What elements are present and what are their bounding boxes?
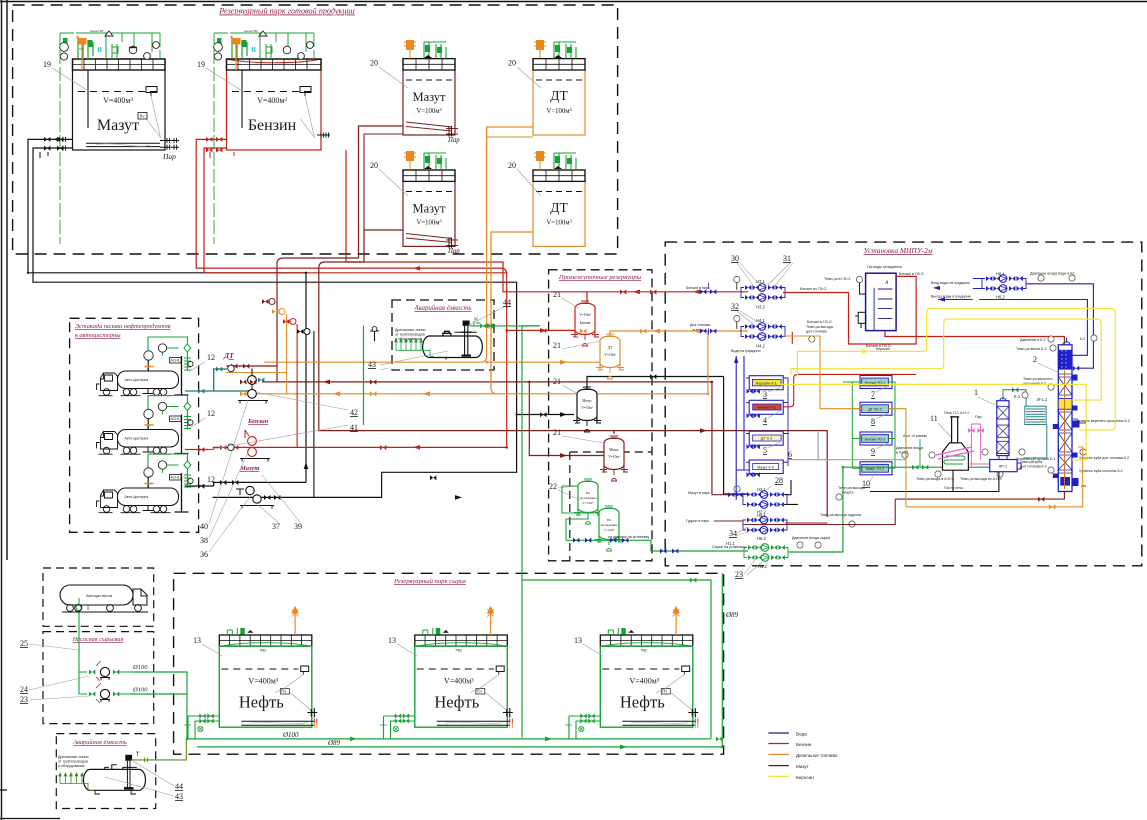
svg-text:38: 38 [200, 536, 208, 545]
svg-text:25: 25 [20, 639, 28, 648]
svg-text:42: 42 [350, 408, 358, 417]
arrows orange [333, 329, 660, 397]
standpipe emergency top [465, 326, 468, 356]
svg-text:доп топлива К-2: доп топлива К-2 [1020, 465, 1047, 469]
svg-text:39: 39 [294, 522, 302, 531]
svg-text:1: 1 [974, 388, 978, 397]
neft tank 13-3 [565, 607, 698, 739]
svg-text:ДТ: ДТ [223, 351, 234, 360]
wire: dt100 riser join [487, 127, 533, 388]
svg-text:Темп-ра в Г.В.О.: Темп-ра в Г.В.О. [824, 277, 851, 281]
gas valves green boxes tank 19 [63, 38, 68, 46]
vessel 21 dt [596, 334, 624, 379]
svg-text:7: 7 [871, 390, 875, 399]
sheet frame left [2, 0, 8, 820]
svg-text:20: 20 [370, 161, 378, 170]
svg-text:Пар: Пар [447, 248, 460, 255]
heat exchanger X-1 kerosene [749, 376, 783, 390]
svg-text:Пар: Пар [162, 152, 176, 161]
neft tank 13-2 [380, 607, 513, 739]
svg-text:Н5.2: Н5.2 [757, 536, 767, 541]
arrows darkred [323, 380, 707, 458]
box: emergency tank (top) [392, 300, 494, 370]
svg-text:20: 20 [508, 59, 516, 68]
svg-text:V=100м³: V=100м³ [416, 108, 441, 115]
takeoff valve darkred [262, 299, 268, 304]
svg-text:Мазут Х-4: Мазут Х-4 [757, 465, 774, 469]
svg-text:23: 23 [735, 570, 743, 579]
svg-text:Темп-ра верха К-2: Темп-ра верха К-2 [1016, 347, 1046, 351]
wire: mazut rack connection [185, 482, 214, 486]
junction dots [505, 329, 508, 449]
svg-text:и оборудования: и оборудования [58, 764, 85, 768]
cluster above dt100-2 [536, 151, 544, 161]
svg-text:43: 43 [368, 360, 376, 369]
svg-text:Н6.1: Н6.1 [996, 272, 1006, 277]
legend water [768, 732, 789, 734]
wire: mazut vessel top to unit [587, 377, 748, 495]
foam symbol benzin [317, 134, 330, 136]
wire: mazut100 riser pair join [359, 126, 404, 252]
svg-text:6: 6 [788, 450, 792, 459]
takeoff valve black [297, 329, 303, 334]
raw pump group 1 [100, 667, 109, 676]
wire: mazut400 black pipe 1 [28, 139, 306, 482]
svg-text:Н2.1: Н2.1 [757, 487, 767, 492]
svg-text:V=100м³: V=100м³ [546, 220, 571, 227]
tank 20 Mazut V=100 (upper) [403, 59, 455, 135]
svg-text:Темп-ра верхнего: Темп-ра верхнего [1023, 377, 1052, 381]
svg-text:V=10м³: V=10м³ [604, 353, 616, 357]
pump group N3 (benzin) [741, 284, 785, 302]
pump group N4 (diesel) [741, 323, 785, 341]
wire: benzin vessel1 top riser [586, 292, 588, 303]
svg-text:Газ воды охладитель: Газ воды охладитель [867, 265, 902, 269]
svg-text:Пар: Пар [447, 137, 460, 144]
svg-text:Бензин Х-2: Бензин Х-2 [757, 406, 776, 410]
svg-text:Сырьё на установку: Сырьё на установку [712, 545, 746, 549]
grey line [788, 432, 906, 460]
svg-text:Темп-ра выхода гудрона: Темп-ра выхода гудрона [820, 513, 861, 517]
vessel 22 green 1 [574, 479, 602, 524]
legend diesel [768, 753, 789, 755]
instrument cluster above benzin tank [230, 33, 314, 59]
wire: orange upper branch to rack [226, 372, 286, 374]
heat exchanger TO-3 [860, 432, 892, 445]
svg-text:Ø100: Ø100 [282, 731, 299, 739]
tank 20 DT V=100 (upper) [533, 59, 585, 135]
svg-text:Бензин: Бензин [248, 117, 297, 134]
svg-text:Азот от рампы: Азот от рампы [903, 434, 928, 438]
svg-text:Мазут: Мазут [412, 90, 446, 104]
svg-text:21: 21 [553, 428, 561, 437]
wire: mazut100 darkred down-left [226, 126, 403, 382]
flame arrestor orange benzin [232, 38, 241, 45]
wire: raw riser right [721, 573, 723, 747]
svg-text:13: 13 [193, 636, 201, 645]
pump group N1 (raw feed) [744, 544, 788, 562]
wire: green otgruzka line [566, 540, 748, 551]
svg-text:Пар: Пар [975, 415, 982, 419]
svg-text:20: 20 [508, 161, 516, 170]
svg-text:28: 28 [775, 476, 783, 485]
svg-text:Аварийная ёмкость: Аварийная ёмкость [414, 305, 472, 312]
heat exchanger X-3 DT [749, 431, 783, 445]
heat exchanger TO-2 [860, 402, 892, 415]
DT rack pumps [248, 376, 257, 385]
KR-1 drum [990, 460, 1017, 472]
svg-text:43: 43 [175, 792, 183, 801]
heat exchanger X-4 mazut [749, 460, 783, 474]
wire: benzin rack manifold [213, 446, 507, 448]
svg-text:13: 13 [574, 636, 582, 645]
blue valves on benzin/diesel lines mid [700, 289, 716, 333]
cluster above mazut100-2 [406, 151, 414, 161]
svg-text:Мазут: Мазут [582, 399, 592, 403]
svg-text:V=400м³: V=400м³ [257, 96, 287, 105]
svg-text:ДТ ТО-2: ДТ ТО-2 [868, 408, 881, 412]
wire: darkred vessel4 branch [529, 382, 605, 456]
wire: dt100 orange supply line [264, 127, 533, 362]
svg-text:Уровень куба колонны К-2: Уровень куба колонны К-2 [1079, 469, 1123, 473]
svg-text:36: 36 [200, 550, 208, 559]
svg-text:24: 24 [20, 685, 28, 694]
tank 20 DT V=100 (lower) [533, 170, 585, 246]
svg-text:Н4.1: Н4.1 [756, 318, 766, 323]
svg-text:V=400м³: V=400м³ [103, 96, 133, 105]
svg-text:Керосин: Керосин [796, 775, 814, 780]
M valve symbol [470, 325, 540, 327]
blue return loops left exchangers [783, 378, 788, 466]
svg-text:К-2: К-2 [1080, 337, 1085, 341]
instrument circles tank 19 [60, 43, 69, 52]
svg-text:40: 40 [200, 522, 208, 531]
svg-text:Н1.2: Н1.2 [758, 564, 768, 569]
wire: benzin to vessel1 [507, 329, 575, 331]
furnace pink stripes [936, 447, 974, 459]
box: intermediate tanks [549, 270, 652, 561]
svg-text:Бензин в парк: Бензин в парк [686, 286, 710, 290]
wire: green drain line bottom emergency [131, 739, 186, 760]
truck 3 [97, 485, 179, 513]
wire: I-1.1 to KR-1 teal [1024, 425, 1047, 459]
svg-text:Резервуарный парк готовой прод: Резервуарный парк готовой продукции [218, 7, 354, 16]
svg-text:Бензин в Г.В.О.: Бензин в Г.В.О. [807, 320, 833, 324]
water in/out lines [973, 279, 982, 289]
wire: green emergency to intermediate [522, 326, 711, 739]
svg-text:Давление в К-2: Давление в К-2 [1020, 338, 1046, 342]
wire: mazut long line to unit [262, 382, 743, 495]
wire: mazut bundle third vertical [313, 331, 315, 497]
takeoff valve red [283, 319, 289, 324]
svg-text:Темп-ра выхода: Темп-ра выхода [806, 325, 833, 329]
vessel 21 mazut black [573, 387, 601, 432]
wire: darkred K2 bottom line [743, 492, 1064, 525]
svg-text:V=10м³: V=10м³ [608, 455, 620, 459]
svg-text:Ø100: Ø100 [132, 687, 148, 694]
svg-text:Мазут в парк: Мазут в парк [688, 491, 710, 495]
GVO block [866, 273, 897, 330]
svg-text:41: 41 [350, 423, 358, 432]
benzin rack pumps [248, 437, 257, 446]
svg-text:Выход воды в градирню: Выход воды в градирню [931, 295, 972, 299]
svg-text:Промежуточные резервуары: Промежуточные резервуары [558, 274, 642, 281]
heat exchanger TO-4 [860, 462, 892, 475]
svg-text:44: 44 [175, 782, 183, 791]
pump group N2 (mazut) 28 [743, 491, 787, 509]
furnace coil green [944, 456, 965, 464]
tank 19 bottom-left valves [44, 137, 63, 151]
pump group N5 (34) [743, 516, 787, 534]
truck 2 [97, 427, 179, 455]
furnace P-1 [943, 443, 969, 470]
flame arrestor orange tank 19 [78, 38, 87, 45]
svg-text:Керосин: Керосин [876, 347, 890, 351]
wire: yellow kerosene lines [797, 309, 1115, 431]
svg-text:Бензин: Бензин [247, 418, 269, 425]
svg-text:30: 30 [731, 254, 739, 263]
wire: green left riser to truck [78, 611, 80, 694]
tank benzin level gauge [300, 87, 311, 93]
junction dots left [27, 272, 518, 416]
takeoff valve orange [272, 309, 278, 314]
cluster above dt100-1 [536, 40, 544, 50]
svg-text:Темп-ра входа в А.Н.У.: Темп-ра входа в А.Н.У. [916, 477, 954, 481]
svg-text:На: На [586, 491, 590, 495]
svg-text:Н6.2: Н6.2 [996, 295, 1006, 300]
svg-text:13: 13 [388, 636, 396, 645]
tank 19 Mazut level gauge [146, 87, 157, 93]
green loops around TO units [843, 382, 862, 468]
svg-text:19: 19 [197, 60, 205, 69]
svg-text:Темп-ра куба: Темп-ра куба [1020, 460, 1042, 464]
box: MNPU unit [665, 242, 1142, 566]
box: loading rack [70, 318, 199, 532]
svg-text:22: 22 [549, 482, 557, 491]
svg-text:21: 21 [553, 290, 561, 299]
svg-text:И-1.1: И-1.1 [1037, 397, 1048, 402]
wire: mazut100 lower tank branch [319, 230, 614, 431]
wire: orange K2 side line [906, 447, 1083, 507]
svg-text:ДТ: ДТ [608, 346, 613, 350]
raw pump group 2 [100, 689, 109, 698]
legend benzin [768, 743, 789, 745]
svg-text:Автоцистерна: Автоцистерна [86, 593, 113, 598]
svg-text:Мазут: Мазут [412, 202, 446, 216]
box: raw tanker truck [43, 568, 154, 626]
wire: red X-2 to GVO [783, 374, 916, 406]
svg-text:12: 12 [207, 409, 215, 418]
svg-text:10: 10 [862, 479, 870, 488]
wire: green feed to furnace/KR1 [843, 466, 990, 468]
box: raw pump house [43, 632, 154, 724]
tank 20 Mazut V=100 (lower) [403, 170, 455, 246]
svg-text:31: 31 [783, 254, 791, 263]
vessel 21 mazut darkred [600, 436, 628, 481]
K2 packing sections [1058, 374, 1072, 473]
instrument cluster above tank 19 [76, 33, 160, 59]
svg-text:в А.Н.У.: в А.Н.У. [896, 451, 909, 455]
teal faucet symbol [370, 331, 379, 341]
wire: mazut rack manifold [213, 481, 306, 483]
wire: green to pump house [130, 672, 187, 739]
svg-text:2: 2 [1033, 355, 1037, 364]
sheet frame bottom-left stub [0, 790, 60, 819]
svg-text:экспедицию: экспедицию [579, 496, 597, 500]
svg-text:ДТ: ДТ [550, 88, 568, 103]
svg-text:Бензин из Г.В.О.: Бензин из Г.В.О. [800, 287, 827, 291]
wire: benzin from GVO to K2 [885, 331, 1064, 350]
box: raw material tank farm [174, 573, 724, 754]
svg-text:Давление входа сырья: Давление входа сырья [792, 536, 830, 540]
K2 condenser blue top [1058, 350, 1072, 370]
neft tank 13-1 [184, 607, 317, 739]
wire: orange TO-2 connection [783, 336, 906, 470]
mazut rack pumps [246, 486, 254, 494]
svg-text:Давление входа воды в К2: Давление входа воды в К2 [1030, 272, 1075, 276]
wire: green drain collector vertical to bottom emergency [363, 326, 365, 425]
svg-text:Бензин в Г.В.О.: Бензин в Г.В.О. [899, 272, 925, 276]
svg-text:Мазут: Мазут [97, 117, 139, 134]
K2 bottom boot [1060, 477, 1070, 486]
svg-text:8: 8 [871, 417, 875, 426]
loading stand 2 [144, 396, 193, 454]
svg-text:21: 21 [553, 377, 561, 386]
svg-text:на отгрузку на установку: на отгрузку на установку [608, 535, 649, 539]
wire: orange vessel2 top riser [610, 331, 708, 336]
svg-text:44: 44 [503, 298, 511, 307]
svg-text:Мазут: Мазут [609, 448, 619, 452]
svg-text:Печь П-1 А.Н.У.: Печь П-1 А.Н.У. [944, 411, 970, 415]
K2 yellow section [1058, 399, 1072, 410]
valve marks bottom lines [1038, 497, 1044, 502]
svg-text:19: 19 [43, 60, 51, 69]
cluster above mazut100-1 [406, 40, 414, 50]
svg-text:Диз топливо: Диз топливо [690, 323, 711, 327]
tank 20-1 Benzin V=400 body [227, 59, 322, 150]
svg-text:Вход воды из градирни: Вход воды из градирни [931, 281, 970, 285]
wire: benzin return from unit to tank [346, 150, 748, 292]
extra arrowheads on long lines [423, 391, 430, 396]
svg-text:мазута: мазута [842, 491, 853, 495]
svg-text:3: 3 [763, 390, 767, 399]
svg-text:Н3.1: Н3.1 [756, 279, 766, 284]
tank 19 Mazut inner pipe [87, 70, 89, 128]
svg-text:А: А [884, 280, 889, 286]
svg-text:V=10м³: V=10м³ [579, 313, 591, 317]
svg-text:37: 37 [272, 522, 280, 531]
svg-text:Вода: Вода [796, 732, 807, 737]
svg-text:Мазут: Мазут [796, 764, 810, 769]
svg-text:V=10м³: V=10м³ [581, 406, 593, 410]
green drop line from cluster to bottom pipes [60, 33, 160, 244]
teal exchanger I-1.1 [1025, 406, 1046, 424]
K2 nozzles [1053, 375, 1080, 487]
svg-text:12: 12 [207, 353, 215, 362]
wire: gas to furnace black [870, 470, 999, 491]
svg-text:ДТ Х-3: ДТ Х-3 [761, 437, 772, 441]
svg-text:32: 32 [731, 302, 739, 311]
tank 19 Mazut V=400 body [73, 59, 166, 150]
wire: water to K2 condenser [1026, 284, 1093, 368]
svg-text:Пч: Пч [140, 114, 145, 119]
svg-text:V=10м³: V=10м³ [583, 501, 594, 505]
legend kerosene [768, 775, 789, 777]
svg-text:в автоцистерны: в автоцистерны [75, 332, 121, 339]
svg-text:9: 9 [871, 447, 875, 456]
raw feed line to unit [788, 467, 843, 552]
green drain arrows bottom [59, 773, 94, 791]
svg-text:Уровень верхнего орошения К-2: Уровень верхнего орошения К-2 [1076, 419, 1130, 423]
loading stand 3 [144, 454, 193, 512]
svg-text:21: 21 [553, 341, 561, 350]
extra valves on long lines [240, 380, 376, 385]
svg-text:ДТ: ДТ [550, 200, 568, 215]
wire: dt100 lower tank line to unit [491, 232, 748, 394]
legend mazut [768, 765, 789, 767]
standpipe bottom emergency [127, 761, 130, 788]
svg-text:20: 20 [370, 59, 378, 68]
green drain arrows emergency top [395, 339, 434, 356]
svg-text:газ на ГФУ: газ на ГФУ [244, 29, 258, 33]
pump group N6 (water) [982, 275, 1026, 293]
emergency tank top vessel [423, 331, 483, 359]
svg-text:Ø89: Ø89 [725, 611, 739, 619]
svg-text:V=10м³: V=10м³ [604, 528, 615, 532]
wire: benzin red pipe 2 [204, 148, 507, 273]
K2 internal downcomer [1064, 371, 1066, 490]
arrow on mazut pipe [53, 137, 567, 417]
svg-text:Керосин Х-1: Керосин Х-1 [756, 381, 776, 385]
svg-text:доп топлива: доп топлива [806, 330, 827, 334]
svg-text:V=100м³: V=100м³ [546, 108, 571, 115]
svg-text:Ø100: Ø100 [132, 664, 148, 671]
svg-text:КР-1: КР-1 [999, 465, 1007, 469]
box: emergency tank (bottom) [56, 734, 155, 809]
svg-text:На: На [607, 518, 611, 522]
loading stand 1 [144, 337, 193, 395]
svg-text:Бензин: Бензин [580, 321, 591, 325]
svg-text:газ на ГФУ: газ на ГФУ [90, 29, 104, 33]
wire: benzin rack connection [185, 447, 214, 449]
svg-text:и оборудования: и оборудования [395, 337, 422, 341]
mazut100-1 par ticks [446, 129, 458, 135]
wire: benzin red pipe 1 [196, 139, 507, 447]
tank 19 Mazut heating coil [86, 143, 160, 146]
svg-text:Темп-ра выхода из А.Н.У.: Темп-ра выхода из А.Н.У. [960, 477, 1003, 481]
svg-text:К-1: К-1 [1014, 394, 1021, 399]
svg-text:4: 4 [763, 416, 767, 425]
svg-text:Темп-ра выхода: Темп-ра выхода [838, 486, 865, 490]
heat exchanger TO-1 [860, 376, 892, 389]
svg-text:Газ на печь: Газ на печь [944, 486, 963, 490]
svg-text:Ø89: Ø89 [327, 739, 341, 747]
svg-text:Бензин: Бензин [796, 742, 812, 747]
svg-text:Н3.2: Н3.2 [756, 305, 766, 310]
svg-text:Резервуарный парк сырья: Резервуарный парк сырья [393, 578, 466, 585]
wire: green expedition piping [562, 486, 609, 541]
box: finished product tank farm [13, 5, 618, 254]
svg-text:Н5.1: Н5.1 [757, 513, 767, 518]
wire: raw manifold green double [187, 739, 722, 747]
sheet frame top [0, 1, 1147, 3]
svg-text:5: 5 [763, 446, 767, 455]
arrows on benzin pipes [413, 266, 640, 450]
svg-text:11: 11 [930, 414, 938, 423]
wire: orange long line left portion [256, 393, 497, 395]
wire: DT teal manifold [185, 369, 252, 391]
svg-text:Н4.2: Н4.2 [756, 344, 766, 349]
